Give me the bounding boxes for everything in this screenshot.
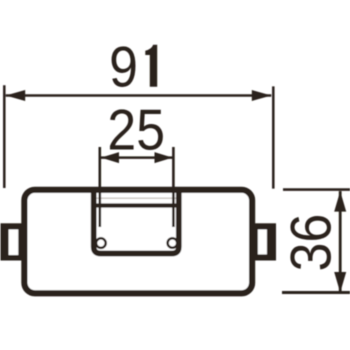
dimension 91 extension line right: [272, 86, 275, 188]
dimension 91 line: [6, 94, 272, 97]
dimension 91 arrowhead right: [252, 90, 271, 101]
hole left: [96, 238, 106, 248]
dimension 36 arrowhead bottom: [334, 272, 346, 293]
body outline: [24, 190, 252, 293]
extension line 25 left: [99, 147, 102, 227]
dimension 36 line: [339, 191, 342, 291]
dimension 25 line: [101, 156, 173, 159]
hole right: [168, 238, 178, 248]
svg-text:36: 36: [278, 214, 343, 272]
right mounting tab: [249, 223, 276, 260]
inner horizontal line: [96, 203, 176, 207]
dimension 36 arrowhead top: [334, 191, 346, 212]
dimension 36 extension line bottom: [282, 291, 350, 294]
svg-text:25: 25: [107, 97, 165, 162]
dimension 36 extension line top: [283, 188, 350, 191]
extension line 25 right: [172, 147, 175, 227]
dimension 91 arrowhead left: [6, 90, 26, 101]
left mounting tab: [1, 223, 25, 260]
dimension 91 extension line left: [3, 85, 6, 188]
dimension 25 arrowhead right: [155, 152, 173, 163]
svg-text:9: 9: [109, 34, 138, 99]
dimension 91 label digit 1: [145, 45, 157, 87]
inner channel U-shape: [94, 189, 179, 254]
dimension 25 arrowhead left: [101, 152, 119, 163]
faint inner line: [97, 197, 177, 199]
